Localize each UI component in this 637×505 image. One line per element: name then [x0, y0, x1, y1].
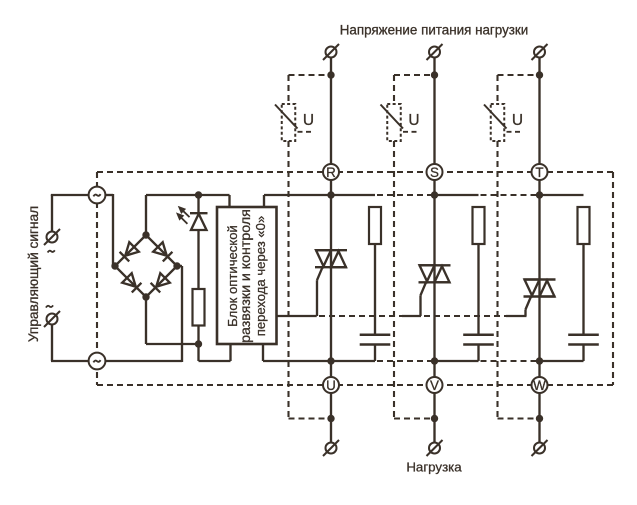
node: phase R top junction — [327, 71, 334, 78]
optocoupler block U1: top-right pin to phase R top bus — [263, 195, 265, 208]
svg-text:W: W — [533, 378, 546, 393]
varistor RU3 — [491, 104, 505, 141]
terminal X2 tilde — [46, 305, 53, 307]
LED light arrows — [178, 207, 190, 223]
bridge diode VD3 — [122, 273, 136, 287]
terminal X4 (supply) — [429, 47, 440, 58]
wire: phase S vertical line — [433, 52, 435, 448]
snubber resistor R1 — [369, 207, 381, 244]
wire: phase R bottom bus (junction to snubber) — [331, 360, 375, 362]
snubber capacitor C3 — [568, 334, 599, 337]
wire: U1 gate output to triac VS1 gate — [277, 315, 317, 317]
varistor RU1 dashed branch bottom — [287, 141, 289, 419]
node: bridge bottom vertex — [142, 293, 149, 300]
wire: control terminal X2 to AC node — [51, 325, 53, 362]
wire: DC+ rail to optocoupler block top-left pin — [228, 195, 230, 208]
LED HL1 — [197, 195, 199, 213]
wire: R4 junction to optocoupler block bottom-left pin — [197, 344, 199, 361]
terminal X1 (control +) — [47, 232, 58, 243]
svg-text:U: U — [303, 112, 314, 129]
wire: phase R vertical line — [330, 52, 332, 448]
svg-text:перехода через «0»: перехода через «0» — [253, 216, 268, 336]
wire: dashed gate bus VS2 to VS3 — [424, 315, 506, 317]
varistor RU2 — [387, 104, 401, 141]
wire: phase T bottom bus (junction to snubber) — [540, 360, 584, 362]
bridge diode VD2 — [153, 242, 167, 256]
varistor RU3 dashed branch bottom — [496, 141, 498, 419]
snubber resistor R3 — [578, 207, 590, 244]
snubber capacitor C2 — [463, 334, 494, 337]
node: phase R bus junction top — [327, 191, 334, 198]
AC source symbol G1 — [89, 187, 106, 204]
optocoupler block U1: bottom-right pin to phase R bottom bus — [262, 343, 264, 361]
varistor RU1 — [282, 104, 296, 141]
terminal X2 (control -) — [47, 314, 58, 325]
wire: bridge top vertex to DC+ rail — [145, 195, 147, 236]
wire: dashed top bus continuation phase 1 — [377, 194, 435, 196]
varistor RU2 dashed branch bottom — [393, 141, 395, 419]
node: phase V output junction — [431, 415, 438, 422]
resistor R4 (control current limiter) — [193, 289, 205, 326]
terminal X7 (load) — [429, 443, 440, 454]
wire: phase S bottom bus (junction to snubber) — [435, 360, 479, 362]
relay body dashed outline (right edge) — [612, 172, 614, 385]
bridge diode VD4 — [156, 273, 170, 287]
node: phase S bus junction top — [431, 191, 438, 198]
svg-text:Напряжение питания нагрузки: Напряжение питания нагрузки — [340, 23, 529, 38]
svg-text:Нагрузка: Нагрузка — [406, 460, 462, 475]
svg-text:U: U — [326, 378, 336, 393]
triac VS1 gate wire — [317, 267, 323, 280]
wire: dashed gate bus VS1 to VS2 — [319, 315, 402, 317]
wire: phase T vertical line — [538, 52, 540, 448]
terminal X8 (load) — [534, 443, 545, 454]
relay body dashed outline (bottom edge through U,V,W) — [97, 384, 613, 386]
node: phase R bus junction bottom — [327, 357, 334, 364]
wire: bridge bottom vertex down and right — [145, 296, 147, 344]
svg-text:V: V — [430, 378, 439, 393]
svg-text:U: U — [512, 112, 523, 129]
op-isolation block U1 — [217, 207, 277, 344]
node T — [532, 164, 548, 180]
triac VS3 — [524, 278, 556, 280]
triac VS3 gate wire — [526, 297, 532, 310]
node: phase S bus junction bottom — [431, 357, 438, 364]
node: phase U output junction — [327, 415, 334, 422]
wire: phase R top bus (junction to snubber) — [331, 194, 375, 196]
varistor RU1 dashed branch top — [289, 74, 332, 76]
node: phase W output junction — [536, 415, 543, 422]
triac VS1 — [315, 249, 347, 251]
wire: dashed bottom bus continuation phase 2 — [481, 360, 540, 362]
diode bridge arms — [115, 235, 177, 297]
terminal X3 (supply) — [326, 47, 337, 58]
node U — [323, 377, 339, 393]
snubber resistor R2 — [473, 207, 485, 244]
wire: phase S top bus (junction to snubber) — [435, 194, 479, 196]
varistor RU2 dashed branch top — [394, 74, 435, 76]
relay body dashed outline (left edge) — [96, 172, 98, 385]
bridge diode VD1 — [125, 242, 139, 256]
wire: AC source G1 to bridge left vertex — [106, 194, 113, 196]
terminal X6 (load) — [326, 443, 337, 454]
svg-text:Управляющий сигнал: Управляющий сигнал — [26, 206, 41, 342]
node: LED top junction — [195, 191, 202, 198]
node: resistor R4 bottom junction — [195, 340, 202, 347]
terminal X1 tilde — [48, 250, 55, 252]
relay body dashed outline (top edge through R,S,T) — [97, 171, 613, 173]
node: bridge left vertex — [111, 262, 118, 269]
node R — [323, 164, 339, 180]
triac VS2 — [419, 264, 451, 266]
wire: phase T top bus (junction to snubber) — [540, 194, 584, 196]
varistor RU3 dashed branch top — [498, 74, 540, 76]
node V — [427, 377, 443, 393]
wire: dashed bottom bus continuation phase 1 — [377, 360, 435, 362]
svg-text:развязки и контроля: развязки и контроля — [238, 209, 254, 343]
wire: dashed top bus continuation phase 2 — [481, 194, 540, 196]
node: phase S top junction — [431, 71, 438, 78]
node: bridge top vertex — [142, 231, 149, 238]
svg-text:R: R — [326, 165, 336, 180]
svg-text:U: U — [408, 112, 419, 129]
node: phase T bus junction bottom — [536, 357, 543, 364]
svg-text:T: T — [535, 165, 543, 180]
wire: control terminal X1 to AC node — [51, 195, 53, 232]
node W — [532, 377, 548, 393]
terminal X5 (supply) — [534, 47, 545, 58]
node: bridge right vertex — [173, 262, 180, 269]
node S — [427, 164, 443, 180]
node: phase T top junction — [536, 71, 543, 78]
svg-text:S: S — [430, 165, 439, 180]
AC source symbol G2 — [89, 353, 106, 370]
snubber capacitor C1 — [360, 334, 391, 337]
node: phase T bus junction top — [536, 191, 543, 198]
wire: AC source G2 to bridge right vertex — [106, 360, 182, 362]
triac VS2 gate wire — [421, 282, 427, 295]
